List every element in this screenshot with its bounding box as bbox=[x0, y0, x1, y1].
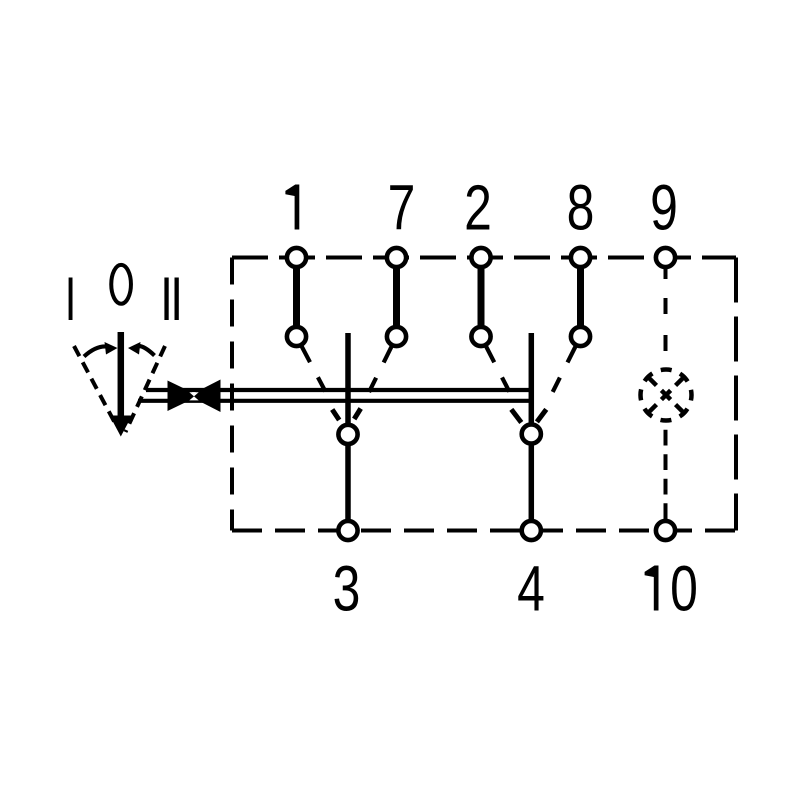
svg-text:8: 8 bbox=[567, 173, 595, 244]
svg-text:9: 9 bbox=[650, 173, 678, 244]
svg-text:7: 7 bbox=[388, 173, 416, 244]
svg-text:4: 4 bbox=[517, 554, 545, 625]
svg-text:0: 0 bbox=[670, 554, 698, 625]
svg-text:2: 2 bbox=[464, 173, 492, 244]
svg-text:3: 3 bbox=[333, 554, 361, 625]
